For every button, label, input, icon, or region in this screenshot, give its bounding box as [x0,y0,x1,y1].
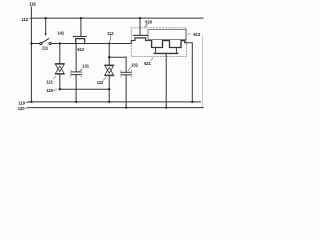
svg-text:621: 621 [144,61,151,66]
element legs [156,48,177,54]
svg-text:112: 112 [107,31,114,36]
diode 121 [55,64,64,75]
wire diode 122 column [108,44,110,102]
wire transistor to heater [146,40,152,42]
leader 121 [53,76,56,79]
svg-text:141: 141 [57,31,64,36]
svg-text:612: 612 [77,47,84,52]
wire top rail node 112 [31,17,203,19]
junction dots rail 119 [30,101,32,103]
wire node 112 tee to capacitor 132 [109,56,126,58]
svg-text:115: 115 [46,88,53,93]
dashed box 620 [131,28,186,57]
capacitor 131 [71,70,81,77]
leader 122 [103,77,106,80]
transistor 621 [133,35,147,40]
leader 132 [128,67,131,71]
transistor 621 gate line 620 [139,18,141,35]
svg-text:111: 111 [42,46,49,51]
svg-text:118: 118 [29,2,36,7]
element 621 channel bar [154,52,178,54]
transistor 612 [73,37,86,44]
svg-text:120: 120 [18,106,25,111]
wire jog to box transistor [131,41,135,44]
leader 131 [80,68,83,71]
wire output to rail 119 [185,43,192,102]
wire diode 121 column [59,44,61,90]
leader 613 squiggle [188,34,191,35]
wire node 115 [60,88,109,90]
svg-text:132: 132 [131,62,138,67]
leader 620 [145,24,148,27]
wire faint right vertical [202,36,204,108]
leader 621 [150,58,153,62]
wire middle column to rail 120 [165,53,167,107]
node 141 arrow line [45,18,47,34]
svg-text:131: 131 [82,64,89,69]
junction dots rail 120 [125,106,127,108]
svg-text:613: 613 [193,32,200,37]
leader 112 mid [110,36,112,43]
resistor element rectangle [148,30,186,40]
wire switch to box [51,43,131,45]
diode 122 [105,65,114,76]
label tick 112 left [29,17,31,20]
transistor 612 gate line [80,18,82,36]
rail 119 [28,101,201,103]
junction dot node 112 tee [108,56,110,58]
svg-text:121: 121 [46,80,53,85]
svg-text:122: 122 [97,80,104,85]
capacitor 132 [121,70,131,77]
arrowhead 141 [45,33,47,36]
switch S 111 [40,39,51,45]
label tick 115 [53,90,57,91]
wire capacitor 132 column [125,57,127,107]
rail 120 [28,107,204,109]
label tick 119 [26,101,28,104]
wire input line 118 [30,7,32,102]
svg-text:112: 112 [22,17,29,22]
junction dots top rail [45,17,47,19]
svg-text:620: 620 [145,20,152,25]
junction dots switch row [30,42,32,44]
heater meander element [152,41,185,48]
wire switch row left [31,43,39,45]
junction dots node 115 [59,88,61,90]
wire capacitor 131 column [75,44,77,102]
svg-text:119: 119 [18,101,25,106]
label tick 120 [26,107,28,110]
